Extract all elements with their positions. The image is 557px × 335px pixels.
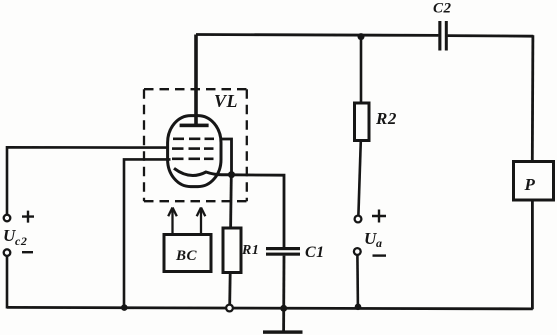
box BC heater supply: [164, 235, 211, 272]
resistor R2: [355, 103, 397, 141]
svg-text:VL: VL: [214, 91, 238, 111]
wire cathode node to C1: [232, 175, 285, 248]
svg-text:R1: R1: [241, 243, 259, 258]
wire R2 to Ua plus terminal: [358, 141, 360, 216]
wire grid 3 to bottom rail: [124, 159, 171, 307]
wire R1 to bottom rail: [228, 273, 231, 305]
node C1/bottom rail junction: [280, 305, 287, 312]
svg-text:c2: c2: [15, 234, 27, 248]
wire right vertical upper (to P): [531, 35, 534, 162]
svg-text:a: a: [376, 236, 383, 250]
node cathode junction: [228, 171, 235, 178]
node junction grid3/bottom rail: [121, 304, 128, 311]
heater arrow left: [168, 208, 177, 235]
svg-text:P: P: [524, 175, 536, 194]
svg-text:C2: C2: [433, 1, 452, 17]
resistor R1: [223, 228, 259, 273]
box P: [514, 162, 554, 201]
tube cathode: [174, 168, 232, 175]
svg-text:BC: BC: [175, 248, 198, 264]
capacitor C1: [266, 244, 325, 261]
terminal Uc2 minus: [4, 249, 11, 256]
terminal Uc2 plus: [4, 215, 11, 222]
heater arrow right: [197, 208, 206, 235]
wire cathode node down to R1: [229, 175, 232, 229]
wire right vertical lower (P to bottom rail): [531, 200, 534, 309]
tube grid row 3 (control grid, dashed): [172, 158, 214, 161]
label VL: [214, 91, 238, 111]
wire top rail left of C2: [196, 33, 438, 37]
terminal Ua minus: [354, 248, 361, 255]
svg-text:C1: C1: [305, 244, 325, 261]
tube VL envelope: [168, 116, 221, 187]
tube grid row 2 (screen grid, dashed): [172, 147, 214, 150]
dashed enclosure around tube: [144, 89, 247, 201]
svg-text:R2: R2: [375, 109, 397, 128]
wire Ua minus to bottom rail: [356, 255, 359, 306]
wire bottom rail: [7, 307, 533, 309]
node R1 open terminal on bottom rail: [226, 305, 233, 312]
tube grid row 1 (suppressor, dashed): [173, 138, 214, 141]
terminal Ua plus: [355, 216, 362, 223]
wire anode lead to top rail: [194, 35, 198, 127]
wire Uc2 plus up and right to grid 2: [7, 147, 169, 215]
node top rail / R2 junction: [358, 33, 365, 40]
ground: [263, 330, 303, 333]
wire left vertical lower (Uc2 minus to bottom rail): [6, 255, 9, 308]
wire suppressor grid down to cathode node: [220, 139, 232, 175]
tube anode plate bar: [180, 124, 209, 128]
label Ua with plus and minus signs: [364, 210, 386, 256]
label Uc2 with plus and minus signs: [3, 211, 34, 253]
wire junction down to R2: [360, 37, 363, 104]
node Ua/bottom rail junction: [355, 304, 362, 311]
wire top rail right of C2: [448, 34, 534, 37]
capacitor C2: [433, 1, 452, 51]
wire C1 to ground: [282, 256, 285, 331]
